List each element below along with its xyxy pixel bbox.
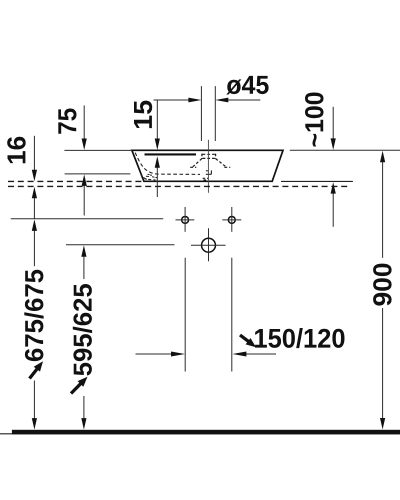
150/120 dim line left part w/ right arrow bbox=[136, 353, 173, 355]
label 16 bbox=[7, 137, 26, 164]
595/625 adjustability arrow bbox=[71, 383, 82, 394]
150/120 dim line right part w/ left arrow bbox=[246, 353, 276, 355]
~100 dim line lower w/ up arrow bbox=[332, 193, 334, 227]
label 900 bbox=[373, 264, 392, 306]
ø45 extension line right bbox=[214, 86, 216, 141]
faucet hole right circle bbox=[228, 216, 235, 223]
faucet hole left circle bbox=[182, 216, 189, 223]
label 595/625 bbox=[73, 284, 92, 376]
label ø45 bbox=[226, 76, 268, 95]
15 dim line upper w/ down arrow bbox=[156, 101, 158, 140]
150/120 adjustability arrow bbox=[240, 335, 249, 342]
washbasin inner rim line bbox=[145, 153, 197, 155]
floor thin line bbox=[0, 433, 400, 435]
corner speckles bbox=[145, 174, 158, 179]
16 dim line lower w/ up arrow bbox=[33, 198, 35, 219]
mixer hole circle bbox=[202, 238, 216, 252]
15 dim line lower w/ up arrow bbox=[156, 167, 158, 197]
label ~100 bbox=[305, 93, 324, 147]
~100 dim line upper w/ down arrow bbox=[332, 107, 334, 139]
centerline of drain hole bbox=[207, 140, 209, 193]
ø45 extension line left bbox=[200, 86, 202, 141]
ø45 dim line right w/ arrow bbox=[228, 99, 261, 101]
16 dim line upper w/ down arrow bbox=[33, 136, 35, 171]
countertop top surface (solid, right of basin) bbox=[281, 180, 353, 182]
595/625 dim line top w/ up arrow bbox=[81, 245, 86, 256]
drain cone hidden outline (dashed) bbox=[201, 154, 203, 159]
675/675 dim line bottom w/ down arrow bbox=[33, 381, 35, 420]
faucet hole left crosshair bbox=[176, 219, 195, 221]
countertop top surface (dashed, left of basin) bbox=[8, 180, 142, 182]
extension line at mixer hole height bbox=[66, 244, 175, 246]
bowl bottom corner curve (dashed) bbox=[141, 173, 156, 180]
faucet hole right crosshair bbox=[222, 219, 241, 221]
extension line below right hole (for 150/120) bbox=[231, 258, 233, 372]
label 150/120 bbox=[255, 328, 344, 348]
900 dim line top w/ up arrow bbox=[380, 151, 385, 163]
mixer hole crosshair bbox=[191, 244, 226, 246]
675/675 adjustability arrow bbox=[30, 368, 38, 379]
ø45 dim line left w/ arrow bbox=[154, 99, 191, 101]
75 dim line upper w/ down arrow bbox=[83, 105, 85, 139]
extension line at bowl bottom level (left) bbox=[65, 173, 131, 175]
900 dim line bottom w/ down arrow bbox=[382, 308, 384, 419]
75 dim line lower w/ up arrow bbox=[83, 186, 85, 216]
595/625 dim line bottom w/ down arrow bbox=[83, 396, 85, 419]
label 675/675 bbox=[24, 270, 43, 361]
extension line at rim level (right) bbox=[290, 149, 400, 151]
extension line at rim level (left) bbox=[64, 149, 131, 151]
extension line at faucet hole height bbox=[11, 218, 163, 220]
washbasin inner bowl hidden edge (dashed) bbox=[135, 153, 200, 175]
label 75 bbox=[58, 109, 76, 134]
drain trap hidden outline (dashed) bbox=[210, 170, 212, 174]
extension line below left hole (for 150/120) bbox=[184, 258, 186, 372]
675/675 dim line top w/ up arrow bbox=[32, 219, 37, 231]
washbasin outline (cross-section) bbox=[132, 150, 283, 181]
label 15 bbox=[134, 101, 152, 129]
floor thick line bbox=[12, 430, 400, 435]
countertop bottom surface (dashed) bbox=[8, 185, 348, 187]
